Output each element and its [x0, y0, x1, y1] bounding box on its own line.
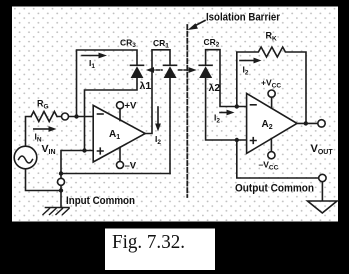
wire: feedback loop up and over to CR3 — [77, 50, 138, 117]
pin minus A1 — [98, 113, 104, 115]
wire: A2 output — [297, 122, 318, 124]
terminal circle on RG output — [62, 113, 69, 120]
terminal +V — [117, 102, 124, 109]
svg-text:+V: +V — [125, 101, 138, 112]
wire: common vertical with plus input feed — [61, 151, 93, 208]
op-amp A2 — [247, 93, 297, 153]
terminal VOUT — [318, 120, 325, 127]
source VIN — [14, 146, 37, 169]
light arrow CR1 to CR3 — [151, 69, 163, 71]
arrow to barrier from label — [194, 21, 206, 27]
arrow I1 — [82, 55, 99, 57]
wire: -Vcc stub — [270, 139, 272, 152]
terminal circle on common line — [58, 178, 65, 185]
pin plus A2 — [251, 138, 257, 144]
terminal +Vcc — [268, 90, 275, 97]
arrow I2 (down, beside A1 output) — [157, 107, 159, 124]
wire: output common — [237, 140, 319, 178]
wire: CR1 anode down to common rail — [169, 78, 171, 174]
node: summing junction dot — [74, 114, 78, 118]
wire: +Vcc stub — [271, 97, 273, 108]
svg-text:–V: –V — [125, 161, 137, 172]
caption box — [105, 229, 215, 271]
wire: RG to inverting input — [69, 116, 94, 118]
ground (output, open triangle) — [308, 201, 338, 213]
wire: +V stub — [119, 109, 121, 121]
wire: VIN top to RG — [26, 117, 32, 147]
isolation barrier dashed line — [186, 25, 188, 197]
node: rail junction — [59, 171, 63, 175]
op-amp A1 — [93, 105, 145, 162]
svg-text:Fig. 7.32.: Fig. 7.32. — [112, 231, 185, 253]
diode CR3 (photodiode, feedback) — [131, 64, 144, 66]
node: A2 plus junction — [235, 138, 239, 142]
wire: A1 output to CR1 cathode loop — [145, 50, 170, 134]
arrow I2 (into minus node) — [220, 112, 227, 114]
wire: -V stub — [119, 147, 121, 161]
node: output junction — [304, 121, 308, 125]
arrow I2 (top, through RK) — [240, 60, 254, 62]
resistor RK feedback loop — [237, 47, 306, 124]
pin minus A2 — [251, 104, 257, 106]
node A (plus input junction) — [82, 148, 86, 152]
wire: VIN bottom return — [26, 169, 62, 191]
light arrow CR1 to CR2 — [179, 69, 191, 71]
ground (input common) — [46, 207, 70, 209]
node: A2 minus junction — [235, 104, 239, 108]
diode CR2 (photodiode, output) — [206, 50, 247, 107]
wire: CR2 anode to plus input of A2 — [206, 78, 247, 140]
schematic panel — [12, 7, 338, 222]
wire: input common rail — [61, 173, 170, 175]
arrow IN — [33, 128, 49, 130]
wire: CR3 anode down, left, down to non-inverting node — [85, 78, 138, 151]
node: VIN return junction — [59, 188, 63, 192]
pin plus A1 — [98, 148, 104, 154]
svg-text:Isolation Barrier: Isolation Barrier — [206, 12, 281, 24]
resistor RG — [31, 112, 62, 122]
svg-text:Output Common: Output Common — [235, 183, 314, 195]
terminal -V — [117, 161, 124, 168]
terminal output common — [319, 174, 326, 181]
svg-text:λ1: λ1 — [140, 80, 152, 92]
diode CR1 (LED) — [164, 64, 177, 66]
wire: terminal to output ground — [321, 182, 323, 201]
terminal -Vcc — [268, 152, 275, 159]
svg-text:Input Common: Input Common — [66, 195, 135, 207]
svg-text:λ2: λ2 — [209, 82, 221, 94]
